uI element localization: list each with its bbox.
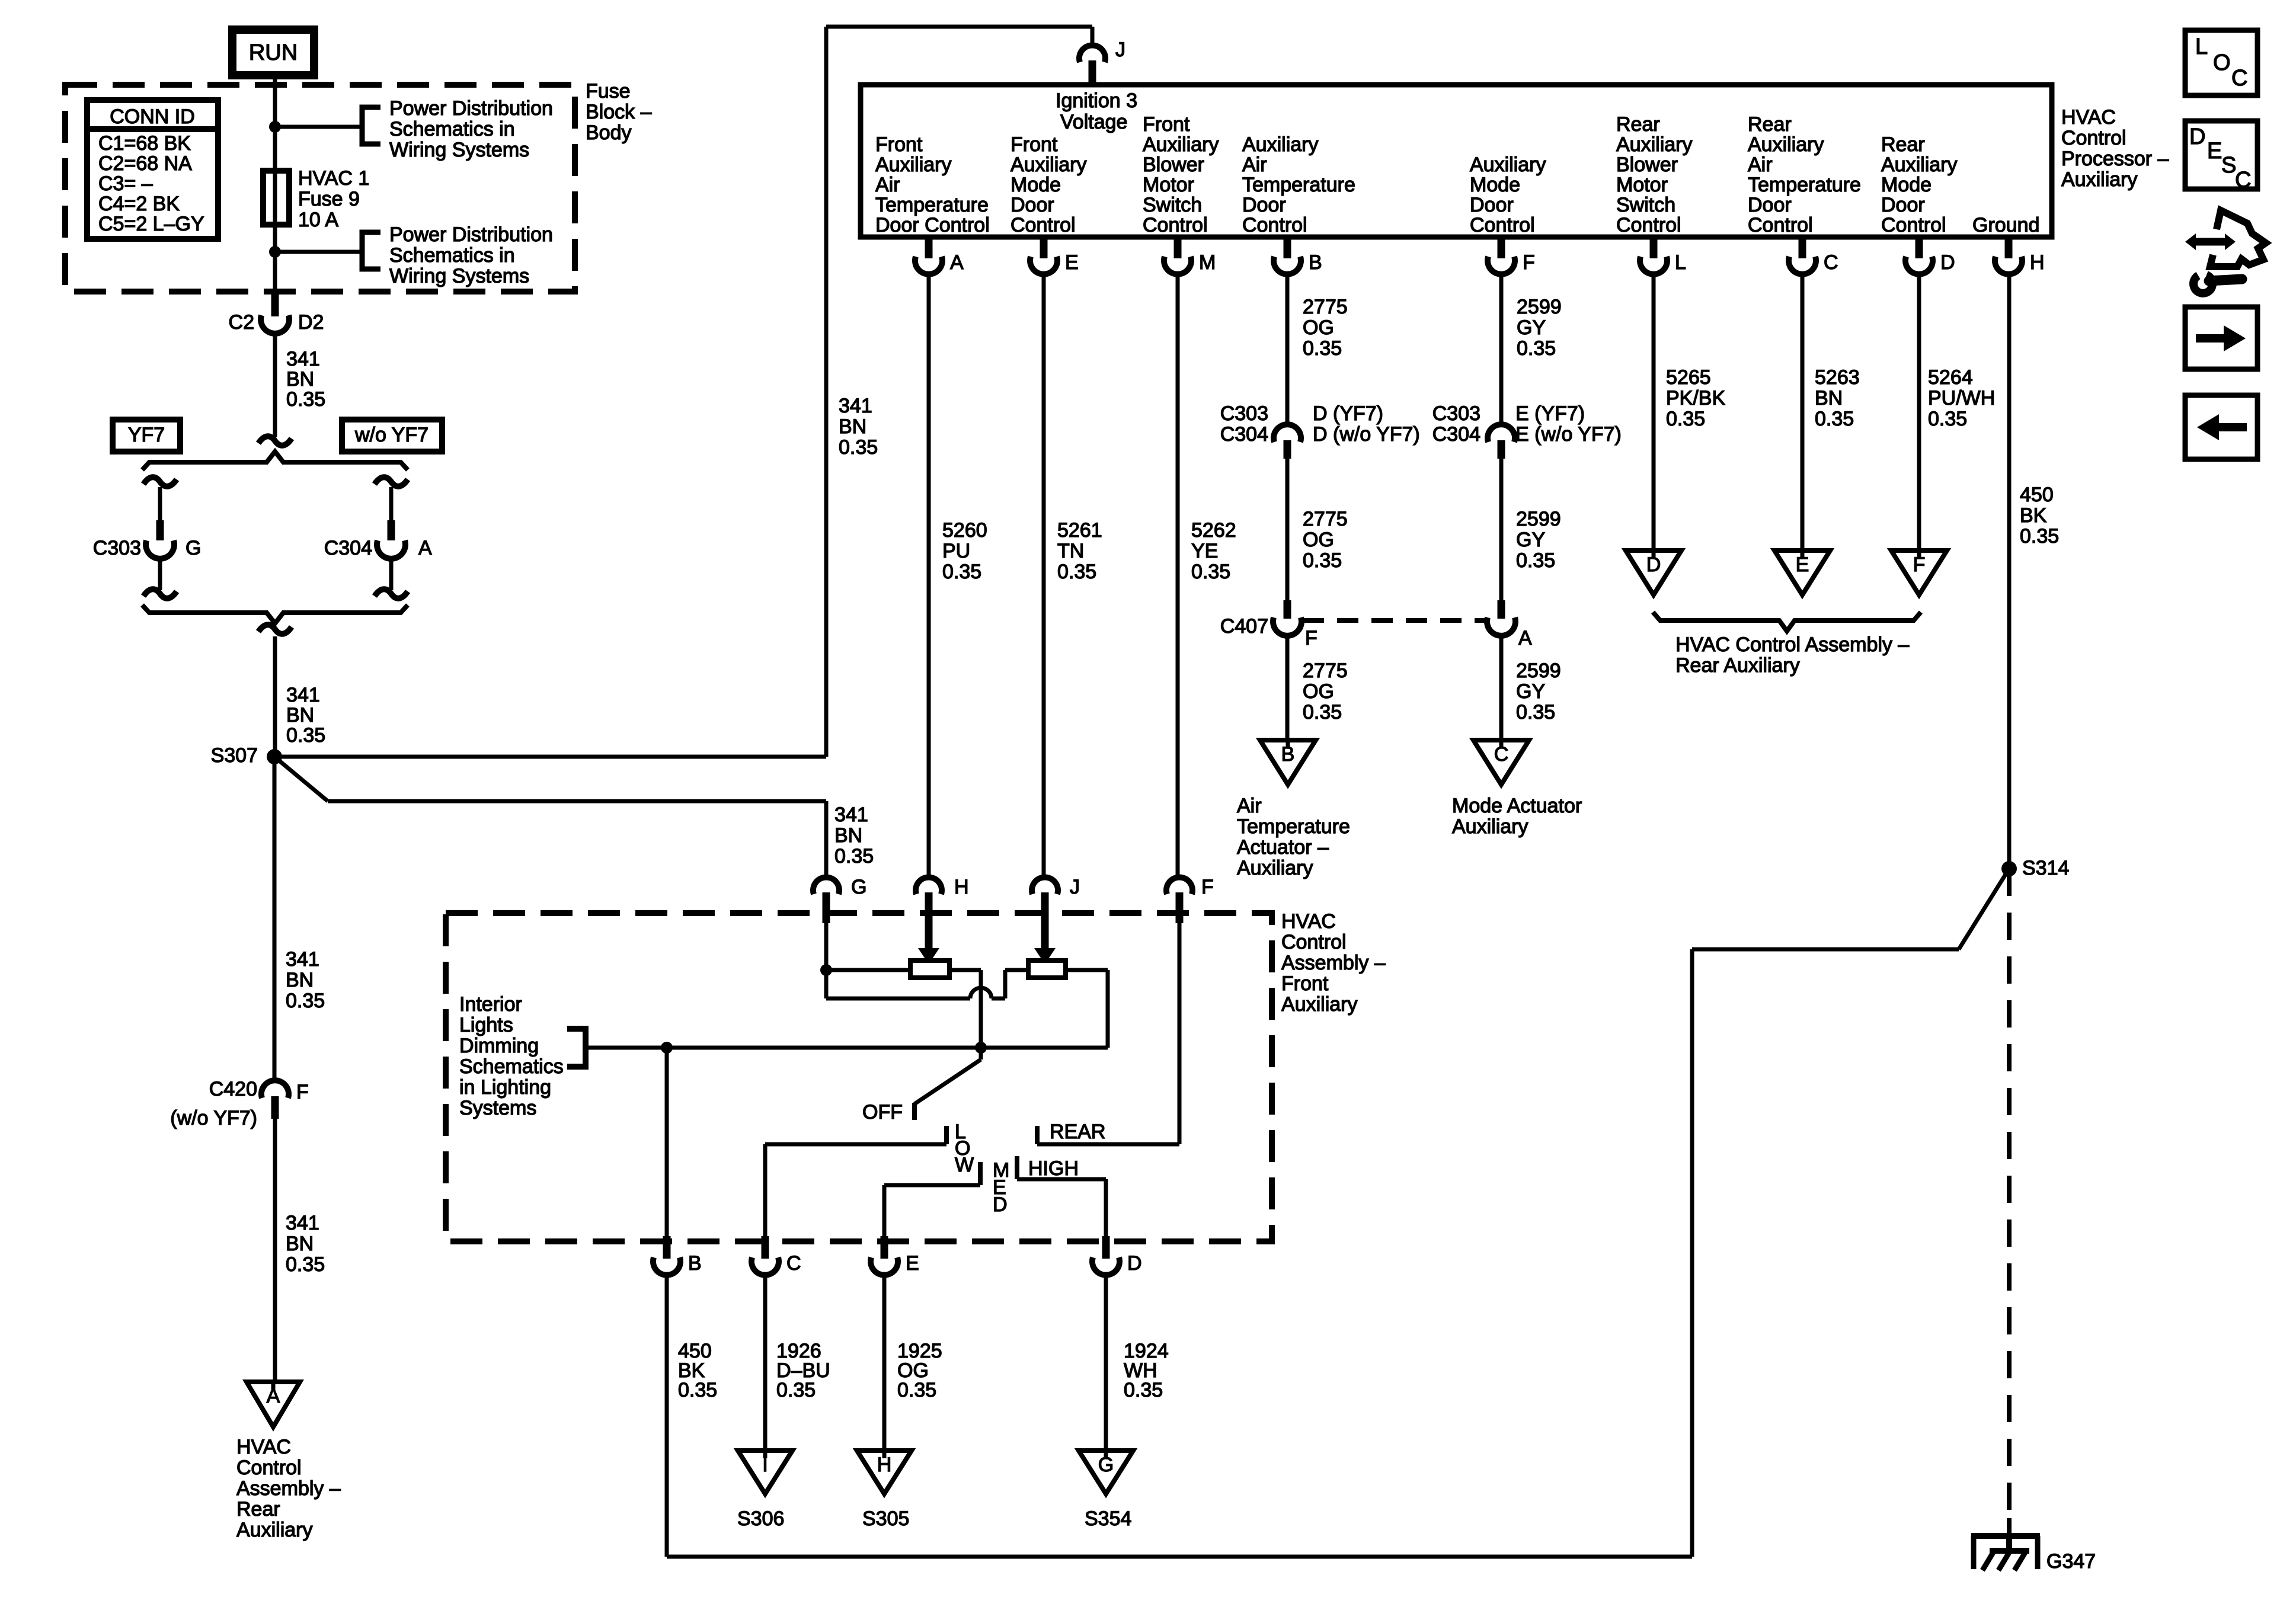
- svg-text:H: H: [877, 1454, 892, 1476]
- resistor R2 (blower): [1028, 961, 1066, 978]
- svg-text:S306: S306: [737, 1507, 784, 1530]
- left branch wire upper: [158, 487, 162, 520]
- connector C303 pin G: pin and cup: [156, 520, 164, 540]
- pin D of HVAC processor: pin and cup: [1916, 237, 1923, 258]
- interior lights dimming wire: [586, 1046, 1108, 1050]
- svg-text:B: B: [688, 1252, 702, 1275]
- left branch break bottom: [143, 589, 177, 598]
- switch contact LOW: [944, 1126, 949, 1144]
- wire resistor2 right to interior line: [1066, 968, 1108, 972]
- wire 5263 BN from pin C: [1801, 273, 1805, 550]
- svg-text:E: E: [1796, 553, 1809, 576]
- icon LOC box: [2185, 30, 2257, 95]
- wire 1924 WH from pin D: [1104, 1274, 1108, 1451]
- svg-text:S307: S307: [211, 744, 258, 767]
- connector C303/C304 pin E on F wire: [1488, 424, 1515, 442]
- brace splitting YF7 / w-o YF7 branches: [142, 452, 408, 470]
- svg-text:F: F: [1201, 876, 1214, 898]
- wire RUN to fuse block: [273, 75, 277, 127]
- svg-text:D: D: [1127, 1252, 1142, 1275]
- svg-text:E: E: [2207, 139, 2222, 164]
- wire 2599 GY below C303: [1499, 459, 1504, 600]
- pin B bottom of front assembly: pin and cup: [663, 1236, 671, 1259]
- svg-text:A: A: [418, 537, 432, 559]
- lower horizontal wire with hop: [826, 997, 970, 1001]
- wire 5260 PU from pin A to front assembly H: [927, 273, 931, 879]
- wire 2775 OG below C303: [1285, 459, 1290, 600]
- left branch wire lower: [158, 556, 162, 590]
- wire to splice S307: [273, 636, 277, 757]
- bracket to power distribution (upper): [362, 107, 380, 144]
- wire to resistor 1: [826, 968, 910, 972]
- icon special tool (wrench and component): [2210, 210, 2266, 267]
- svg-text:C303C304: C303C304: [1432, 402, 1480, 446]
- dashed ground wire S314 to G347: [2007, 869, 2012, 1518]
- pin H of HVAC processor: pin and cup: [2005, 237, 2013, 258]
- pin C bottom of front assembly: pin and cup: [762, 1236, 769, 1259]
- svg-text:C420: C420: [209, 1078, 257, 1100]
- wire 341 BN below C2: [273, 331, 277, 437]
- wire 5264 PU/WH from pin D: [1917, 273, 1921, 550]
- arrow from pin H to blower resistor 1: [925, 923, 933, 948]
- wire REAR to pin F: [1178, 923, 1182, 1144]
- svg-text:O: O: [2213, 50, 2231, 75]
- wire 2775 OG from pin B: [1285, 273, 1290, 426]
- ignition switch RUN box: [232, 30, 314, 75]
- wire 5265 PK/BK from pin L: [1652, 273, 1656, 550]
- connector C407 pin F: pin and cup: [1284, 600, 1291, 619]
- HVAC control assembly front auxiliary dashed box: [446, 913, 1272, 1241]
- svg-text:RUN: RUN: [249, 40, 298, 65]
- svg-text:D: D: [2189, 124, 2205, 149]
- dashed connector link C407: [1303, 618, 1487, 623]
- node: junction above fuse: [269, 121, 281, 133]
- svg-text:L: L: [2195, 34, 2208, 59]
- wire down to pin B of front assembly: [665, 1048, 669, 1236]
- YF7 option box: [113, 420, 180, 452]
- ground symbol G347: [2007, 1518, 2012, 1536]
- wire 1925 OG from pin E: [882, 1274, 887, 1451]
- HVAC control processor box: [861, 85, 2052, 237]
- bracket interior lights: [567, 1029, 586, 1067]
- svg-text:A: A: [267, 1385, 280, 1407]
- svg-text:C: C: [1824, 251, 1838, 274]
- svg-text:B: B: [1281, 743, 1295, 766]
- bottom ground run wire: [667, 1555, 1692, 1559]
- CONN ID table: [87, 100, 218, 239]
- pin L of HVAC processor: pin and cup: [1650, 237, 1658, 258]
- w/o YF7 option box: [342, 420, 442, 452]
- wire 450 BK ground from pin H: [2007, 273, 2012, 869]
- svg-text:OFF: OFF: [862, 1101, 903, 1124]
- riser wire from bottom run: [1690, 949, 1694, 1557]
- connector C303/C304 pin D on B wire: [1274, 424, 1301, 442]
- svg-text:D: D: [1940, 251, 1955, 274]
- pin E bottom of front assembly: pin and cup: [881, 1236, 888, 1259]
- pin M of HVAC processor: pin and cup: [1174, 237, 1182, 258]
- break below merge: [258, 625, 292, 634]
- wire up to resistor 2: [1003, 970, 1008, 998]
- connector C420 pin F: cup and pin: [261, 1080, 289, 1098]
- fuse block dashed box (Fuse Block - Body): [65, 85, 575, 292]
- wire resistor1 right corner down: [949, 968, 981, 972]
- svg-text:F: F: [1305, 627, 1318, 649]
- wire down to G pin of front assembly: [824, 801, 829, 879]
- wire break above YF7 split: [258, 436, 292, 446]
- svg-text:C407: C407: [1220, 615, 1268, 638]
- svg-text:E: E: [1065, 251, 1079, 274]
- switch contact REAR: [1035, 1126, 1040, 1144]
- wire diagonal from S314: [1959, 869, 2009, 949]
- wire G pin into box: [824, 923, 829, 998]
- svg-text:I: I: [762, 1454, 768, 1476]
- connector C304 pin A: pin and cup: [388, 520, 395, 540]
- node to pin B wire: [661, 1042, 673, 1054]
- wire 450 BK from pin B to ground run: [665, 1274, 669, 1557]
- svg-text:C304: C304: [324, 537, 372, 559]
- splice S314: [2001, 861, 2017, 876]
- pin G of front assembly: cup and pin: [813, 877, 839, 894]
- svg-text:C: C: [2235, 168, 2251, 193]
- pin H of front assembly: cup and pin: [916, 877, 942, 894]
- wire S307 diagonal branch: [274, 757, 328, 801]
- svg-text:J: J: [1115, 39, 1125, 61]
- svg-text:H: H: [954, 876, 969, 898]
- arrow from pin J to blower resistor 2: [1041, 923, 1049, 948]
- svg-text:C2: C2: [229, 311, 254, 334]
- svg-text:S305: S305: [862, 1507, 909, 1530]
- svg-text:M: M: [1199, 251, 1216, 274]
- svg-text:A: A: [950, 251, 964, 274]
- svg-text:HIGH: HIGH: [1028, 1157, 1079, 1180]
- svg-text:G: G: [186, 537, 201, 559]
- wire S307 to riser (341 BN to HVAC processor J): [274, 755, 826, 759]
- node: junction below fuse: [269, 246, 281, 258]
- right branch break bottom: [375, 589, 408, 598]
- svg-text:A: A: [1518, 627, 1532, 649]
- svg-text:D2: D2: [298, 311, 324, 334]
- connector J at HVAC processor: cup and pin: [1079, 45, 1105, 62]
- pin D bottom of front assembly: pin and cup: [1102, 1236, 1110, 1259]
- svg-text:F: F: [1913, 553, 1926, 576]
- triangle I splice S306: [738, 1451, 792, 1494]
- right branch wire lower: [389, 556, 394, 590]
- wire branch to lower power distribution: [275, 250, 362, 254]
- wire fuse to connector C2: [273, 252, 277, 292]
- wire 2775 OG to actuator: [1285, 635, 1290, 740]
- svg-text:YF7: YF7: [128, 424, 165, 446]
- wire 5262 YE from pin M to front assembly F: [1176, 273, 1180, 879]
- icon back arrow box: [2185, 395, 2257, 459]
- svg-text:C: C: [2231, 66, 2247, 91]
- double arrow of special tool icon: [2195, 238, 2226, 246]
- triangle C to mode actuator: [1473, 740, 1529, 785]
- svg-text:C303: C303: [93, 537, 141, 559]
- resistor R1 (blower): [910, 961, 949, 978]
- off-page triangle A to HVAC control assembly rear: [247, 1382, 300, 1427]
- svg-text:C: C: [1494, 743, 1509, 766]
- splice S307: [267, 749, 282, 764]
- svg-text:Ground: Ground: [1972, 214, 2039, 236]
- right branch (w/o YF7) break top: [375, 477, 408, 486]
- svg-text:C: C: [786, 1252, 801, 1275]
- pin J of front assembly: cup and pin: [1032, 877, 1058, 894]
- wire 2599 GY from pin F: [1499, 273, 1504, 426]
- svg-text:E: E: [906, 1252, 919, 1275]
- connector C2/D2: pin and cup: [271, 292, 279, 316]
- connector C407 pin A: pin and cup: [1498, 600, 1505, 619]
- svg-text:S: S: [2221, 153, 2236, 178]
- triangle D to rear control assembly: [1626, 550, 1681, 595]
- left branch (YF7) break top: [143, 477, 177, 486]
- svg-text:S314: S314: [2022, 857, 2069, 879]
- node on G wire: [820, 964, 832, 976]
- pin B of HVAC processor: pin and cup: [1284, 237, 1291, 258]
- pin C of HVAC processor: pin and cup: [1799, 237, 1806, 258]
- svg-text:(w/o YF7): (w/o YF7): [170, 1107, 257, 1129]
- svg-text:G347: G347: [2046, 1550, 2096, 1573]
- svg-text:REAR: REAR: [1050, 1121, 1105, 1143]
- triangle E to rear control assembly: [1774, 550, 1830, 595]
- icon forward arrow box: [2185, 307, 2257, 369]
- svg-text:CONN ID: CONN ID: [110, 105, 195, 128]
- svg-text:S354: S354: [1085, 1507, 1131, 1530]
- blower switch: common pole and OFF arm: [979, 1048, 983, 1060]
- bracket to power distribution (lower): [362, 232, 380, 269]
- triangle H splice S305: [857, 1451, 912, 1494]
- brace HVAC control assembly rear auxiliary: [1653, 612, 1921, 631]
- wire branch to upper power distribution: [275, 125, 362, 129]
- svg-text:G: G: [1098, 1454, 1114, 1476]
- wrench of special tool icon: [2193, 275, 2212, 293]
- svg-text:F: F: [296, 1081, 309, 1103]
- wire 1926 D-BU from pin C: [763, 1274, 768, 1451]
- riser wire up to top: [824, 27, 829, 757]
- triangle G splice S354: [1079, 1451, 1133, 1494]
- icon DESC box: [2185, 121, 2257, 189]
- wire down to J connector: [1091, 27, 1095, 47]
- wire S307 down to C420: [273, 757, 277, 1082]
- wire C420 to triangle A: [273, 1119, 277, 1382]
- wire horizontal from riser: [1692, 948, 1959, 952]
- switch contact HIGH: [1015, 1156, 1019, 1179]
- svg-text:B: B: [1309, 251, 1322, 274]
- svg-text:Voltage: Voltage: [1060, 111, 1127, 133]
- svg-text:Ignition 3: Ignition 3: [1056, 89, 1137, 112]
- wire 2599 GY to actuator: [1499, 635, 1504, 740]
- svg-text:J: J: [1070, 876, 1080, 898]
- svg-text:L: L: [1675, 251, 1686, 274]
- pin E of HVAC processor: pin and cup: [1040, 237, 1048, 258]
- right branch wire upper: [389, 487, 394, 520]
- svg-text:G: G: [851, 876, 866, 898]
- wire 5261 TN from pin E to front assembly J: [1042, 273, 1046, 879]
- pin F of HVAC processor: pin and cup: [1498, 237, 1505, 258]
- triangle B to air temperature actuator: [1260, 740, 1316, 785]
- pin F of front assembly: cup and pin: [1166, 877, 1192, 894]
- fuse HVAC 1 Fuse 9 10A: [263, 171, 289, 225]
- top horizontal wire to pin J: [826, 25, 1092, 29]
- svg-text:H: H: [2030, 251, 2045, 274]
- node switch common: [975, 1042, 987, 1054]
- switch contact MED: [978, 1162, 983, 1185]
- brace merging YF7 branches: [142, 605, 408, 623]
- triangle F to rear control assembly: [1891, 550, 1947, 595]
- svg-text:C303C304: C303C304: [1220, 402, 1268, 446]
- svg-text:F: F: [1523, 251, 1535, 274]
- svg-text:D: D: [1646, 553, 1661, 576]
- pin A of HVAC processor: pin and cup: [925, 237, 933, 258]
- svg-text:w/o YF7: w/o YF7: [354, 424, 428, 446]
- wire horizontal to front aux G: [328, 799, 826, 804]
